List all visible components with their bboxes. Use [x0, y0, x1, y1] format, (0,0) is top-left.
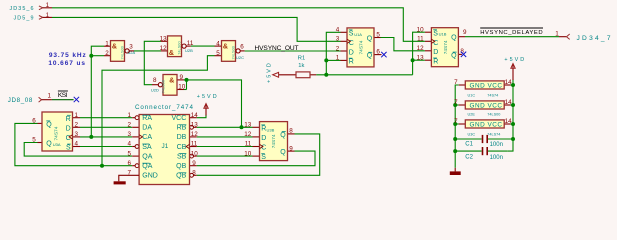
svg-text:D: D — [349, 49, 354, 56]
wire QA-bar feedback to U2C input pin 5 — [102, 56, 215, 166]
svg-text:9: 9 — [289, 145, 293, 152]
hierarchical pin JD5_9 — [14, 12, 53, 22]
wire J1 pin 10 to U3B S pin 10 — [197, 155, 253, 157]
wire DA row U3A to J1 pin 2 — [80, 126, 132, 128]
svg-text:93.75 kHz: 93.75 kHz — [49, 52, 87, 59]
svg-text:U1B: U1B — [439, 32, 447, 37]
svg-text:U1C: U1C — [468, 93, 476, 97]
svg-text:6: 6 — [240, 43, 244, 50]
svg-text:6: 6 — [127, 160, 131, 167]
svg-text:D: D — [66, 125, 71, 132]
svg-text:U2D: U2D — [151, 88, 159, 93]
svg-text:Q: Q — [367, 36, 373, 43]
flip-flop U1B — [417, 27, 467, 67]
svg-text:SA: SA — [142, 144, 152, 151]
svg-text:S: S — [349, 30, 354, 37]
svg-text:14: 14 — [505, 99, 513, 106]
wire RB-bar net from U2D input down to J1 pin 13 row — [187, 80, 242, 127]
svg-text:4: 4 — [75, 141, 79, 148]
svg-text:U2A: U2A — [127, 50, 135, 55]
svg-text:5: 5 — [32, 137, 36, 144]
NAND gate U2A — [104, 40, 136, 61]
svg-text:CB: CB — [177, 144, 187, 151]
svg-text:Q: Q — [367, 53, 373, 60]
svg-text:74LS00: 74LS00 — [161, 79, 166, 93]
svg-text:&: & — [112, 44, 117, 51]
power symbol +5VD left arrow at R1 — [267, 63, 279, 83]
svg-text:KSI: KSI — [58, 92, 68, 99]
label HVSYNC_DELAYED with overline — [480, 28, 543, 36]
svg-text:1: 1 — [127, 112, 131, 119]
svg-text:U2B: U2B — [185, 48, 193, 53]
node RB-bar junction — [240, 125, 244, 129]
svg-text:74S74: 74S74 — [443, 40, 449, 54]
svg-text:1: 1 — [336, 55, 340, 62]
svg-text:R: R — [433, 58, 438, 65]
NAND gate U2B — [160, 35, 194, 57]
svg-text:13: 13 — [244, 122, 252, 129]
svg-text:10: 10 — [191, 150, 199, 157]
svg-text:1: 1 — [47, 93, 51, 100]
hierarchical pin JD8_08 with KSI stub — [8, 93, 74, 104]
svg-text:JD8_08: JD8_08 — [8, 97, 33, 104]
svg-text:5: 5 — [376, 32, 380, 39]
wire HVSYNC_OUT net U2C output to U1A D pin 2 — [245, 50, 341, 52]
svg-text:10: 10 — [178, 84, 186, 91]
wire clock net CA riser to gate U2A inputs — [91, 46, 104, 137]
wire QB-bar route J1 pin 8 to U3B Q-bar pin 8 — [197, 134, 320, 175]
wire SA row U3A to J1 pin 4 — [80, 146, 132, 148]
NAND gate U2D mirrored — [151, 74, 186, 95]
svg-text:1: 1 — [555, 30, 559, 37]
wire J1 pin 14 VCC to +5VD — [197, 115, 206, 118]
svg-text:13: 13 — [191, 122, 199, 129]
svg-text:10: 10 — [417, 27, 425, 34]
svg-text:13: 13 — [160, 35, 168, 42]
svg-text:R1: R1 — [298, 55, 305, 61]
svg-text:14: 14 — [505, 79, 513, 86]
wire +5V row from R1 to U1B tie — [316, 74, 412, 76]
svg-text:QB: QB — [176, 163, 186, 170]
svg-text:S: S — [66, 145, 71, 152]
svg-text:74LS00: 74LS00 — [120, 45, 125, 59]
node U1A reset junction — [324, 58, 328, 62]
supply unit U2E GND VCC — [454, 99, 512, 116]
wire U2A output to U2B input pin 12 — [134, 50, 161, 52]
svg-text:J1: J1 — [162, 143, 169, 150]
note 10.667 us — [48, 60, 85, 67]
svg-text:U2E: U2E — [468, 113, 476, 117]
svg-text:GND VCC: GND VCC — [470, 121, 503, 128]
svg-text:9: 9 — [463, 29, 467, 36]
svg-text:DB: DB — [177, 134, 187, 141]
svg-text:2: 2 — [105, 50, 109, 57]
svg-text:74S74: 74S74 — [271, 134, 277, 148]
svg-text:Q: Q — [46, 121, 52, 128]
wire JD35_6 net to U1B clock pin 11 — [52, 8, 425, 42]
wire C1 row — [455, 138, 513, 140]
svg-text:D: D — [433, 49, 438, 56]
svg-text:9: 9 — [180, 74, 184, 81]
capacitor C2 — [465, 147, 503, 161]
svg-text:D: D — [261, 135, 266, 142]
svg-text:Q: Q — [280, 132, 286, 139]
svg-text:+5VD: +5VD — [504, 57, 524, 63]
node U1B reset junction — [411, 58, 415, 62]
svg-text:&: & — [169, 78, 174, 85]
capacitor C1 — [465, 135, 503, 148]
node R1 output junction — [324, 73, 328, 77]
svg-text:Connector_7474: Connector_7474 — [135, 104, 194, 111]
supply unit U1C GND VCC — [454, 79, 512, 97]
svg-text:CA: CA — [142, 134, 152, 141]
svg-text:1: 1 — [105, 40, 109, 47]
svg-text:8: 8 — [192, 170, 196, 177]
svg-text:74LS74: 74LS74 — [487, 132, 500, 136]
svg-text:Q: Q — [451, 53, 457, 60]
flip-flop U3A mirrored — [32, 112, 80, 152]
svg-text:RB: RB — [177, 125, 187, 132]
svg-text:100n: 100n — [490, 142, 503, 148]
label KSI — [58, 91, 68, 99]
svg-text:12: 12 — [244, 131, 252, 138]
svg-text:8: 8 — [153, 77, 157, 84]
wire left GND rail of supply units — [455, 85, 459, 168]
wire right +5VD rail of supply units — [508, 80, 513, 152]
svg-text:11: 11 — [187, 40, 194, 47]
wire QB route J1 pin 9 to U3B Q pin 9 — [197, 151, 315, 166]
svg-text:4: 4 — [216, 40, 220, 47]
svg-text:74S74: 74S74 — [54, 126, 60, 140]
svg-text:3: 3 — [336, 36, 340, 43]
svg-text:S: S — [433, 30, 438, 37]
svg-text:JD5_9: JD5_9 — [14, 16, 34, 22]
svg-text:3: 3 — [75, 131, 79, 138]
svg-text:U1A: U1A — [354, 32, 362, 37]
node U2D input junction — [185, 78, 189, 82]
wire U2B output to U2C input pin 4 — [191, 45, 215, 47]
svg-text:R: R — [66, 116, 71, 123]
svg-text:12: 12 — [191, 131, 199, 138]
no-connect U1B pin 8 — [461, 52, 466, 57]
hierarchical pin JD35_6 — [10, 2, 53, 12]
svg-text:4: 4 — [336, 27, 340, 34]
wire J1 pin 11 to U3B C pin 11 — [197, 146, 253, 148]
svg-text:11: 11 — [417, 36, 424, 43]
node right rail junctions — [511, 83, 515, 141]
svg-text:14: 14 — [505, 118, 513, 125]
svg-text:74LS00: 74LS00 — [487, 113, 500, 117]
svg-text:13: 13 — [417, 55, 425, 62]
wire C2 row — [455, 150, 508, 152]
svg-text:2: 2 — [127, 122, 131, 129]
svg-text:6: 6 — [376, 48, 380, 55]
svg-text:1k: 1k — [298, 63, 304, 69]
svg-text:RA: RA — [142, 115, 152, 122]
wire RA row U3A to J1 pin 1 — [80, 117, 132, 119]
connector J1 — [127, 104, 198, 185]
svg-text:VCC: VCC — [172, 115, 187, 122]
node left rail junctions — [453, 103, 457, 153]
svg-text:Q: Q — [451, 35, 457, 42]
wire U1B set/reset pullup tie — [413, 32, 425, 75]
wire J1 pin 12 to U3B D pin 12 — [197, 136, 253, 138]
svg-text:11: 11 — [191, 141, 198, 148]
no-connect KSI stub — [74, 97, 79, 102]
svg-text:12: 12 — [160, 45, 168, 52]
svg-text:10: 10 — [244, 150, 252, 157]
svg-text:1: 1 — [75, 112, 79, 119]
svg-text:74S74: 74S74 — [487, 93, 498, 97]
svg-text:100n: 100n — [490, 155, 503, 161]
wire HVSYNC_DELAYED net U1B Q to JD34_7 — [465, 36, 559, 38]
svg-text:6: 6 — [32, 118, 36, 125]
power symbol +5VD at J1 pin 14 — [197, 94, 217, 116]
wire U1A Q pin 5 to U1B D pin 12 — [381, 38, 425, 51]
svg-text:1: 1 — [46, 2, 50, 9]
ground symbol at J1 pin 7 — [114, 175, 140, 184]
svg-text:JD35_6: JD35_6 — [10, 6, 34, 12]
svg-text:3: 3 — [127, 131, 131, 138]
svg-text:HVSYNC_DELAYED: HVSYNC_DELAYED — [480, 30, 543, 36]
ground symbol at supply rail — [450, 168, 461, 175]
svg-text:2: 2 — [336, 45, 340, 52]
svg-text:HVSYNC_OUT: HVSYNC_OUT — [255, 45, 299, 52]
svg-text:QB: QB — [176, 173, 186, 180]
svg-text:&: & — [169, 50, 174, 57]
svg-text:4: 4 — [127, 141, 131, 148]
svg-text:SB: SB — [177, 153, 187, 160]
svg-text:10.667 us: 10.667 us — [48, 60, 85, 67]
svg-text:S: S — [261, 154, 266, 161]
svg-text:QA: QA — [142, 163, 152, 170]
svg-text:+5VD: +5VD — [197, 94, 217, 100]
svg-text:11: 11 — [245, 141, 252, 148]
svg-text:74S74: 74S74 — [359, 40, 365, 54]
wire JD5_9 net to U1A clock pin 3 — [52, 17, 341, 41]
svg-text:&: & — [223, 44, 228, 51]
wire QA loop U3A pin 5 to J1 pin 5 — [24, 143, 132, 157]
supply unit U3C GND VCC — [454, 118, 512, 136]
svg-text:GND VCC: GND VCC — [470, 102, 503, 109]
no-connect U1A pin 6 — [381, 52, 386, 57]
svg-text:U3C: U3C — [468, 132, 476, 136]
note 93.75 kHz — [49, 52, 87, 59]
wire U1A set/reset pullup tie — [326, 32, 340, 75]
svg-text:2: 2 — [75, 122, 79, 129]
svg-text:C2: C2 — [465, 155, 473, 161]
svg-text:12: 12 — [417, 45, 425, 52]
svg-text:74LS00: 74LS00 — [231, 45, 236, 59]
svg-text:9: 9 — [192, 160, 196, 167]
resistor R1 — [279, 55, 316, 77]
svg-text:1: 1 — [46, 12, 50, 19]
node clock junction at gate input tie — [89, 54, 93, 58]
svg-text:7: 7 — [454, 99, 458, 106]
svg-text:U3A: U3A — [53, 142, 61, 147]
svg-text:5: 5 — [216, 50, 220, 57]
svg-text:DA: DA — [142, 125, 152, 132]
svg-text:Q: Q — [280, 149, 286, 156]
svg-text:U2C: U2C — [236, 55, 244, 60]
node CA junction — [89, 135, 93, 139]
flip-flop U3B mirrored — [244, 122, 294, 162]
svg-text:Q: Q — [46, 141, 52, 148]
wire U2D tied inputs — [184, 80, 187, 90]
wire U2D output to U2B input pin 13 — [144, 41, 161, 84]
svg-text:+5VD: +5VD — [267, 63, 273, 83]
svg-text:QA: QA — [142, 153, 152, 160]
svg-text:8: 8 — [289, 127, 293, 134]
svg-text:74LS00: 74LS00 — [177, 41, 182, 55]
svg-text:C1: C1 — [465, 142, 473, 148]
svg-text:7: 7 — [454, 79, 458, 86]
svg-text:7: 7 — [454, 118, 458, 125]
svg-text:GND VCC: GND VCC — [470, 82, 503, 89]
power symbol +5VD at supply rail — [504, 57, 524, 80]
node QA-bar junction — [100, 164, 104, 168]
wire J1 pin 13 to U3B R pin 13 — [197, 126, 253, 128]
svg-text:R: R — [349, 59, 354, 66]
hierarchical pin JD34_7 — [555, 30, 611, 41]
svg-text:U3B: U3B — [267, 128, 275, 133]
svg-text:GND: GND — [142, 173, 158, 180]
svg-text:14: 14 — [191, 112, 199, 119]
flip-flop U1A — [336, 27, 382, 67]
NAND gate U2C — [215, 40, 245, 61]
wire CA row J1 pin 3 — [80, 136, 132, 138]
svg-text:5: 5 — [127, 150, 131, 157]
label HVSYNC_OUT — [255, 45, 299, 52]
wire QA-bar loop U3A pin 6 to J1 pin 6 — [15, 123, 132, 165]
